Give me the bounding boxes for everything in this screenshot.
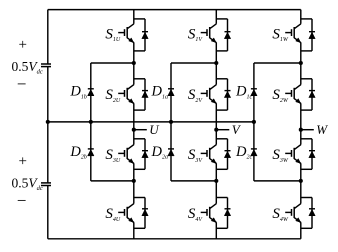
wire: phase U rail S_4U emitter to bottom bus bbox=[133, 222, 135, 239]
IGBT S_2U gate lead bbox=[118, 92, 124, 94]
IGBT S_2U emitter lead bbox=[127, 99, 134, 104]
IGBT S_4W collector lead bbox=[294, 204, 301, 209]
anti-parallel diode of S_1V bbox=[225, 31, 231, 33]
clamp diode D_1a bbox=[168, 88, 174, 90]
IGBT S_2V gate lead bbox=[201, 92, 207, 94]
wire: output stub phase W bbox=[301, 129, 314, 131]
IGBT S_4V cell top stub bbox=[216, 197, 227, 199]
IGBT S_2U collector lead bbox=[127, 85, 133, 90]
wire: negative DC bus rail (bottom) bbox=[48, 238, 301, 240]
junction: neutral rail at DC link midpoint bbox=[46, 120, 50, 124]
IGBT S_3W collector lead bbox=[294, 145, 301, 150]
IGBT S_2W emitter lead bbox=[294, 99, 301, 104]
IGBT S_4U cell top stub bbox=[134, 197, 145, 199]
anti-parallel diode of S_1U bbox=[142, 31, 148, 33]
IGBT S_3U collector lead bbox=[127, 145, 133, 150]
anti-parallel diode branch of S_3W bbox=[311, 139, 313, 170]
wire: phase V rail S_4V emitter to bottom bus bbox=[215, 222, 217, 239]
IGBT S_4U collector lead bbox=[127, 204, 133, 209]
IGBT S_2U cell top stub bbox=[134, 78, 145, 80]
anti-parallel diode branch of S_2U bbox=[144, 79, 146, 110]
junction: S_1W/S_2W midpoint bbox=[299, 61, 303, 65]
IGBT S_4W cell top stub bbox=[301, 197, 312, 199]
wire: output stub phase V bbox=[216, 129, 229, 131]
IGBT S_3U gate lead bbox=[118, 152, 124, 154]
IGBT S_2W collector lead bbox=[294, 85, 301, 90]
wire: phase V rail S_3V emitter to S_4V collector bbox=[215, 163, 217, 203]
wire: clamp branch top jog phase U bbox=[91, 62, 134, 64]
IGBT S_1W cell bottom stub bbox=[301, 50, 312, 52]
clamp diode D_2c bbox=[251, 148, 257, 150]
anti-parallel diode branch of S_4W bbox=[311, 198, 313, 229]
anti-parallel diode of S_4V bbox=[225, 208, 231, 210]
IGBT S_2V gate bar bbox=[206, 90, 208, 97]
wire: phase V rail S_1V emitter to S_2V collector bbox=[215, 43, 217, 85]
IGBT S_4V gate lead bbox=[201, 211, 207, 213]
IGBT S_3V collector lead bbox=[210, 145, 217, 150]
IGBT S_3W cell bottom stub bbox=[301, 168, 312, 170]
anti-parallel diode of S_2W bbox=[309, 90, 315, 92]
clamp diode D_2b bbox=[88, 148, 94, 150]
anti-parallel diode of S_3U bbox=[142, 150, 148, 152]
IGBT S_3W gate lead bbox=[285, 152, 291, 154]
IGBT S_2U gate bar bbox=[124, 90, 126, 97]
wire: phase V rail S_2V emitter to S_3V collector bbox=[215, 103, 217, 144]
wire: clamp diode branch phase V bbox=[170, 63, 172, 181]
wire: clamp branch bottom jog phase V bbox=[171, 180, 216, 182]
anti-parallel diode branch of S_4U bbox=[144, 198, 146, 229]
IGBT S_2U body bar bbox=[126, 88, 128, 99]
IGBT S_1U collector lead bbox=[127, 24, 133, 29]
IGBT S_3W cell top stub bbox=[301, 138, 312, 140]
anti-parallel diode of S_1W bbox=[309, 31, 315, 33]
IGBT S_3U emitter arrowhead bbox=[129, 159, 134, 164]
wire: phase W rail from top bus to S_1W collector bbox=[300, 10, 302, 24]
anti-parallel diode of S_4W bbox=[309, 208, 315, 210]
anti-parallel diode branch of S_4V bbox=[227, 198, 229, 229]
junction: clamp branch phase V on neutral rail bbox=[169, 120, 173, 124]
svg-text:+: + bbox=[19, 37, 27, 53]
IGBT S_4V body bar bbox=[209, 207, 211, 218]
IGBT S_4W emitter lead bbox=[294, 218, 301, 223]
IGBT S_4W gate bar bbox=[291, 209, 293, 216]
clamp diode D_1b bbox=[88, 88, 94, 90]
wire: clamp diode branch phase W bbox=[253, 63, 255, 181]
wire: phase W rail S_1W emitter to S_2W collector bbox=[300, 43, 302, 85]
wire: phase W rail S_2W emitter to S_3W collector bbox=[300, 103, 302, 144]
IGBT S_3V gate bar bbox=[206, 150, 208, 157]
junction: S_3W/S_4W midpoint bbox=[299, 179, 303, 183]
clamp diode D_1c bbox=[251, 88, 257, 90]
IGBT S_4V emitter arrowhead bbox=[211, 218, 216, 223]
IGBT S_2W emitter arrowhead bbox=[296, 99, 301, 104]
IGBT S_3U cell top stub bbox=[134, 138, 145, 140]
svg-text:+: + bbox=[19, 154, 27, 170]
junction: clamp branch phase U on neutral rail bbox=[89, 120, 93, 124]
IGBT S_1U cell top stub bbox=[134, 18, 145, 20]
capacitor C1 (upper DC-link, 0.5Vdc) bbox=[41, 63, 51, 65]
IGBT S_4V cell bottom stub bbox=[216, 227, 227, 229]
anti-parallel diode branch of S_2W bbox=[311, 79, 313, 110]
IGBT S_4U emitter lead bbox=[127, 218, 134, 223]
IGBT S_1V cell bottom stub bbox=[216, 50, 227, 52]
IGBT S_1U emitter lead bbox=[127, 38, 134, 43]
IGBT S_1W emitter lead bbox=[294, 38, 301, 43]
IGBT S_4U cell bottom stub bbox=[134, 227, 145, 229]
IGBT S_3V body bar bbox=[209, 148, 211, 159]
IGBT S_3W emitter lead bbox=[294, 159, 301, 164]
IGBT S_1V cell top stub bbox=[216, 18, 227, 20]
anti-parallel diode branch of S_1V bbox=[227, 19, 229, 51]
IGBT S_2V emitter lead bbox=[210, 99, 217, 104]
IGBT S_4W cell bottom stub bbox=[301, 227, 312, 229]
IGBT S_3W body bar bbox=[293, 148, 295, 159]
wire: output stub phase U bbox=[134, 129, 147, 131]
junction: clamp branch phase W on neutral rail bbox=[252, 120, 256, 124]
anti-parallel diode of S_3W bbox=[309, 150, 315, 152]
IGBT S_2W gate bar bbox=[291, 90, 293, 97]
wire: left DC link rail lower segment bbox=[47, 186, 49, 239]
anti-parallel diode branch of S_3U bbox=[144, 139, 146, 170]
IGBT S_3U body bar bbox=[126, 148, 128, 159]
IGBT S_4V collector lead bbox=[210, 204, 217, 209]
IGBT S_3U gate bar bbox=[124, 150, 126, 157]
anti-parallel diode branch of S_1U bbox=[144, 19, 146, 51]
wire: phase V rail from top bus to S_1V collector bbox=[215, 10, 217, 24]
IGBT S_1V emitter arrowhead bbox=[211, 38, 216, 43]
IGBT S_3U cell bottom stub bbox=[134, 168, 145, 170]
IGBT S_1W collector lead bbox=[294, 24, 301, 29]
IGBT S_2W gate lead bbox=[285, 92, 291, 94]
clamp diode D_2a bbox=[168, 148, 174, 150]
IGBT S_1U gate bar bbox=[124, 29, 126, 36]
IGBT S_3W emitter arrowhead bbox=[296, 159, 301, 164]
wire: phase W rail S_4W emitter to bottom bus bbox=[300, 222, 302, 239]
anti-parallel diode of S_3V bbox=[225, 150, 231, 152]
IGBT S_4V emitter lead bbox=[210, 218, 217, 223]
IGBT S_2W cell top stub bbox=[301, 78, 312, 80]
junction: S_1V/S_2V midpoint bbox=[214, 61, 218, 65]
IGBT S_1V collector lead bbox=[210, 24, 217, 29]
IGBT S_2U cell bottom stub bbox=[134, 109, 145, 111]
IGBT S_1U gate lead bbox=[118, 32, 124, 34]
IGBT S_4V gate bar bbox=[206, 209, 208, 216]
svg-text:−: − bbox=[17, 75, 27, 94]
wire: phase W rail S_3W emitter to S_4W collector bbox=[300, 163, 302, 203]
wire: clamp branch bottom jog phase U bbox=[91, 180, 134, 182]
IGBT S_3U emitter lead bbox=[127, 159, 134, 164]
IGBT S_4W emitter arrowhead bbox=[296, 218, 301, 223]
IGBT S_3V cell top stub bbox=[216, 138, 227, 140]
IGBT S_3V emitter lead bbox=[210, 159, 217, 164]
capacitor C2 (lower DC-link, 0.5Vdc) bbox=[41, 182, 51, 184]
wire: clamp branch top jog phase V bbox=[171, 62, 216, 64]
svg-text:W: W bbox=[316, 122, 328, 137]
wire: phase U rail from top bus to S_1U collector bbox=[133, 10, 135, 24]
IGBT S_1W gate lead bbox=[285, 32, 291, 34]
IGBT S_3V gate lead bbox=[201, 152, 207, 154]
IGBT S_1V gate lead bbox=[201, 32, 207, 34]
wire: left DC link rail upper segment bbox=[47, 10, 49, 64]
IGBT S_4U body bar bbox=[126, 207, 128, 218]
IGBT S_4W gate lead bbox=[285, 211, 291, 213]
IGBT S_1U cell bottom stub bbox=[134, 50, 145, 52]
node W (output) bbox=[299, 128, 303, 132]
wire: phase U rail S_2U emitter to S_3U collector bbox=[133, 103, 135, 144]
IGBT S_4U emitter arrowhead bbox=[129, 218, 134, 223]
IGBT S_2W body bar bbox=[293, 88, 295, 99]
wire: clamp branch top jog phase W bbox=[254, 62, 301, 64]
junction: S_3U/S_4U midpoint bbox=[132, 179, 136, 183]
IGBT S_3V cell bottom stub bbox=[216, 168, 227, 170]
anti-parallel diode of S_2U bbox=[142, 90, 148, 92]
IGBT S_3V emitter arrowhead bbox=[211, 159, 216, 164]
IGBT S_4U gate bar bbox=[124, 209, 126, 216]
svg-text:U: U bbox=[149, 122, 160, 137]
junction: S_1U/S_2U midpoint bbox=[132, 61, 136, 65]
IGBT S_1W emitter arrowhead bbox=[296, 38, 301, 43]
IGBT S_2V cell bottom stub bbox=[216, 109, 227, 111]
wire: phase U rail S_3U emitter to S_4U collector bbox=[133, 163, 135, 203]
wire: clamp branch bottom jog phase W bbox=[254, 180, 301, 182]
IGBT S_4U gate lead bbox=[118, 211, 124, 213]
IGBT S_1U emitter arrowhead bbox=[129, 38, 134, 43]
IGBT S_1W body bar bbox=[293, 27, 295, 38]
wire: positive DC bus rail (top) bbox=[48, 9, 301, 11]
IGBT S_1V emitter lead bbox=[210, 38, 217, 43]
IGBT S_2V cell top stub bbox=[216, 78, 227, 80]
node U (output) bbox=[132, 128, 136, 132]
IGBT S_4W body bar bbox=[293, 207, 295, 218]
node V (output) bbox=[214, 128, 218, 132]
anti-parallel diode branch of S_3V bbox=[227, 139, 229, 170]
IGBT S_1V body bar bbox=[209, 27, 211, 38]
anti-parallel diode branch of S_1W bbox=[311, 19, 313, 51]
anti-parallel diode of S_4U bbox=[142, 208, 148, 210]
wire: neutral-point rail bbox=[48, 121, 254, 123]
svg-text:−: − bbox=[17, 191, 27, 210]
wire: left DC link rail middle segment bbox=[47, 67, 49, 183]
IGBT S_2V emitter arrowhead bbox=[211, 99, 216, 104]
IGBT S_2U emitter arrowhead bbox=[129, 99, 134, 104]
anti-parallel diode of S_2V bbox=[225, 90, 231, 92]
wire: phase U rail S_1U emitter to S_2U collector bbox=[133, 43, 135, 85]
IGBT S_1W cell top stub bbox=[301, 18, 312, 20]
junction: S_3V/S_4V midpoint bbox=[214, 179, 218, 183]
wire: clamp diode branch phase U bbox=[90, 63, 92, 181]
IGBT S_2V body bar bbox=[209, 88, 211, 99]
IGBT S_2V collector lead bbox=[210, 85, 217, 90]
IGBT S_3W gate bar bbox=[291, 150, 293, 157]
IGBT S_1V gate bar bbox=[206, 29, 208, 36]
anti-parallel diode branch of S_2V bbox=[227, 79, 229, 110]
IGBT S_1W gate bar bbox=[291, 29, 293, 36]
IGBT S_1U body bar bbox=[126, 27, 128, 38]
IGBT S_2W cell bottom stub bbox=[301, 109, 312, 111]
